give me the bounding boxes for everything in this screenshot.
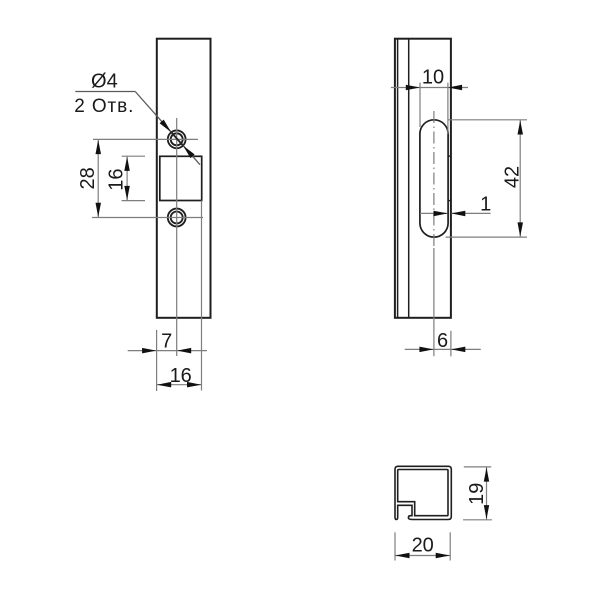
svg-text:20: 20: [412, 535, 434, 557]
svg-text:16: 16: [105, 168, 127, 190]
svg-text:16: 16: [170, 365, 192, 387]
svg-text:7: 7: [161, 330, 172, 352]
svg-text:28: 28: [77, 167, 99, 189]
svg-text:Ø4: Ø4: [91, 70, 118, 92]
svg-text:42: 42: [502, 166, 524, 188]
svg-text:6: 6: [437, 330, 448, 352]
svg-text:2 Отв.: 2 Отв.: [74, 96, 134, 117]
svg-text:10: 10: [422, 66, 444, 88]
svg-text:1: 1: [480, 193, 491, 215]
svg-text:19: 19: [466, 483, 488, 505]
